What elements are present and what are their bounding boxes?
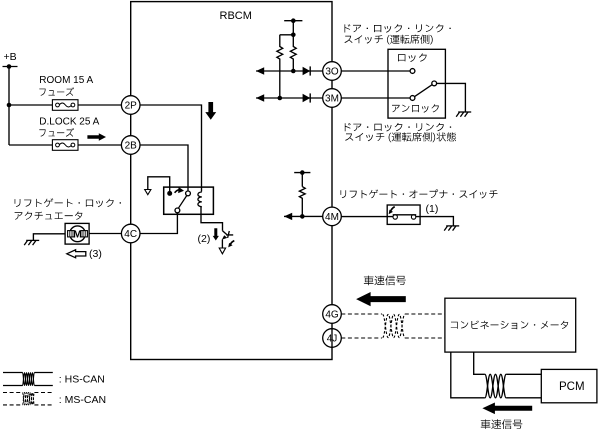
relay coil L1 [198, 192, 202, 207]
terminal 2P [121, 96, 140, 115]
power rail node (4M pull-up) [294, 170, 310, 186]
label liftgate lock actuator [15, 198, 121, 220]
twisted pair MS-CAN [383, 314, 405, 337]
svg-text:+B: +B [4, 51, 17, 63]
liftgate opener switch box [387, 205, 420, 224]
fuse F2 D.LOCK 25 A [52, 140, 78, 151]
terminal 2B [121, 136, 140, 155]
legend label HS-CAN [59, 374, 105, 386]
unlock contact [410, 96, 415, 101]
svg-text:3O: 3O [325, 67, 339, 78]
wire twisted pair to PCM (upper) [506, 373, 541, 375]
switch common contact [432, 81, 437, 86]
driver switch (2) momentary arrow [228, 241, 234, 248]
wire meter to twisted pair (lower) [451, 352, 485, 398]
relay actuation arrow [175, 187, 184, 193]
twisted pair HS-CAN [485, 374, 506, 398]
arrow down small (lock signal) [213, 228, 219, 240]
resistor R2 (to 3O) [290, 35, 296, 71]
terminal 4G [323, 305, 342, 324]
terminal 4J [323, 329, 342, 348]
wire opener switch to ground [416, 217, 454, 226]
svg-text:3M: 3M [325, 94, 339, 105]
wire fuse F1 to 2P [78, 104, 121, 106]
ground (actuator) [24, 240, 39, 245]
label (1) [426, 203, 439, 215]
svg-text:4G: 4G [325, 310, 339, 321]
relay contact NO [186, 191, 191, 196]
svg-text:: HS-CAN: : HS-CAN [59, 374, 105, 386]
label door-lock-link-switch status [345, 123, 456, 142]
diode D2 (3M) [303, 93, 311, 102]
node +B [4, 51, 17, 63]
arrow vehicle speed (bottom bold left) [482, 403, 532, 415]
switch arm [415, 85, 433, 97]
label vehicle speed signal (bottom) [481, 419, 523, 429]
wire fuse F2 to 2B [78, 144, 121, 146]
wire relay common to internal node (hollow arrow) [145, 177, 170, 195]
relay fixed contact (common) [167, 191, 172, 196]
wire twisted pair to PCM (lower) [506, 397, 541, 399]
svg-text:: MS-CAN: : MS-CAN [59, 394, 106, 406]
opener switch contacts and arm [393, 215, 417, 219]
label liftgate opener switch [341, 189, 498, 198]
resistor R1 (to 3M) [277, 35, 283, 98]
relay output contact [175, 208, 180, 213]
wire 3O line [256, 67, 322, 74]
legend label MS-CAN [59, 394, 106, 406]
wire 4M to opener switch [341, 216, 393, 218]
svg-text:4M: 4M [325, 212, 339, 223]
label lock [398, 53, 427, 62]
label door-lock-link-switch (driver side) [345, 24, 451, 44]
legend HS-CAN symbol [3, 373, 53, 386]
lock contact [410, 69, 415, 74]
svg-text:4C: 4C [124, 229, 137, 240]
wire 3M line [256, 94, 322, 101]
terminal 4C [121, 224, 140, 243]
power rail node (3O/3M pull-up) [280, 18, 303, 37]
svg-text:D.LOCK 25 A: D.LOCK 25 A [39, 116, 99, 127]
svg-text:(3): (3) [89, 248, 102, 260]
label RBCM [220, 10, 252, 22]
svg-text:2B: 2B [125, 141, 138, 152]
legend MS-CAN symbol [3, 393, 53, 405]
svg-text:4J: 4J [327, 334, 338, 345]
label PCM [559, 381, 585, 393]
ground (opener switch) [444, 226, 459, 231]
arrow vehicle speed (top bold left) [356, 292, 406, 306]
wire switch common to ground [437, 83, 466, 112]
wire coil to driver switch (2) [201, 207, 223, 231]
svg-text:M: M [73, 229, 82, 241]
arrow down (unlock output) [205, 102, 216, 120]
label D.LOCK 25 A fuse [39, 116, 99, 136]
svg-text:2P: 2P [125, 101, 138, 112]
label (2) [198, 233, 211, 245]
svg-text:ROOM 15 A: ROOM 15 A [39, 75, 93, 86]
label vehicle speed signal (top) [364, 275, 406, 285]
wire motor to ground [33, 234, 65, 241]
label unlock [392, 104, 439, 113]
relay switch arm [178, 196, 186, 209]
wire +B rail [3, 64, 53, 145]
terminal 3M [323, 89, 342, 108]
wire motor to 4C [89, 233, 121, 235]
wire relay output to 4C [140, 213, 177, 234]
label combination meter [451, 321, 568, 330]
combination meter box [445, 298, 576, 352]
diode D1 (3O) [303, 66, 311, 75]
door lock link switch box [388, 49, 445, 118]
PCM box [541, 369, 597, 402]
wire meter to twisted pair (upper) [474, 352, 485, 374]
label (3) [89, 248, 102, 260]
svg-text:(1): (1) [426, 203, 439, 215]
arrow hollow left (3) [67, 250, 86, 258]
wire 4M line [284, 213, 323, 220]
motor M (actuator) [65, 223, 89, 244]
ground (door lock link switch) [456, 112, 471, 117]
resistor R3 (4M pull-up) [299, 187, 305, 217]
svg-text:RBCM: RBCM [220, 10, 252, 22]
terminal 4M [323, 207, 342, 226]
opener switch momentary arrow [389, 207, 395, 215]
svg-text:(2): (2) [198, 233, 211, 245]
wire 3O to lock contact [341, 70, 410, 72]
wire 2P to relay coil [140, 105, 202, 192]
label ROOM 15 A fuse [39, 75, 93, 96]
RBCM module box [131, 2, 332, 360]
fuse F1 ROOM 15 A [52, 100, 78, 111]
arrow lock operation (bold right) [87, 133, 106, 141]
svg-text:PCM: PCM [559, 381, 585, 393]
wire 3M to unlock contact [341, 97, 410, 99]
terminal 3O [323, 62, 342, 81]
relay box [164, 187, 214, 214]
wire 4J dashed (MS-CAN) [341, 337, 445, 339]
driver switch (2) symbol [219, 231, 233, 254]
wire 2B to relay contact [140, 145, 188, 191]
wire 4G dashed (MS-CAN) [341, 313, 445, 315]
